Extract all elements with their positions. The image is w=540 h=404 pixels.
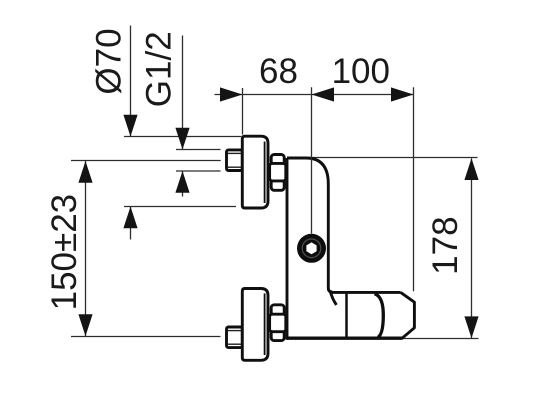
svg-text:178: 178: [426, 216, 465, 274]
svg-text:68: 68: [259, 52, 298, 91]
svg-text:G1/2: G1/2: [140, 31, 179, 107]
svg-text:100: 100: [332, 52, 390, 91]
svg-text:150±23: 150±23: [45, 194, 84, 311]
svg-text:Ø70: Ø70: [89, 28, 128, 94]
